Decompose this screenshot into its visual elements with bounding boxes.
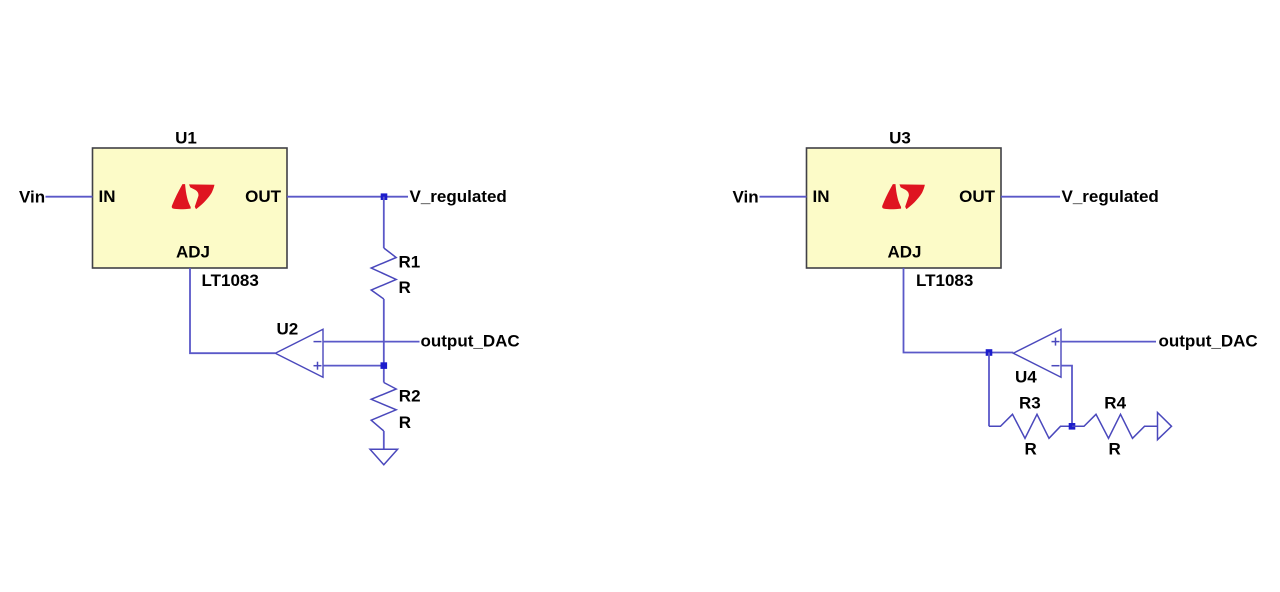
svg-text:IN: IN <box>99 187 116 206</box>
resistor R2 <box>371 383 396 432</box>
svg-text:OUT: OUT <box>245 187 282 206</box>
svg-text:U4: U4 <box>1015 368 1037 387</box>
svg-text:output_DAC: output_DAC <box>1159 332 1258 351</box>
svg-text:R4: R4 <box>1104 393 1126 412</box>
U3 LT logo <box>882 184 925 209</box>
wire R2 to ground <box>383 431 385 449</box>
wire Vin to U1 IN <box>46 196 93 198</box>
svg-text:output_DAC: output_DAC <box>421 332 520 351</box>
svg-text:R1: R1 <box>399 253 421 272</box>
op-amp U2 <box>275 329 323 377</box>
svg-text:V_regulated: V_regulated <box>410 187 507 206</box>
wire U2 + input to divider junction <box>323 365 384 367</box>
junction at feedback node <box>986 349 993 356</box>
svg-text:IN: IN <box>813 187 830 206</box>
svg-text:LT1083: LT1083 <box>202 271 259 290</box>
svg-text:Vin: Vin <box>733 188 759 207</box>
wire U2 - input to output_DAC <box>323 341 420 343</box>
U1 LT logo <box>172 184 215 209</box>
svg-text:R: R <box>399 413 411 432</box>
svg-text:R: R <box>1025 439 1037 458</box>
svg-text:U1: U1 <box>175 129 197 148</box>
wire U4 + input to output_DAC <box>1061 341 1156 343</box>
wire U3 OUT to V_regulated <box>1001 196 1060 198</box>
svg-text:OUT: OUT <box>959 187 996 206</box>
junction at OUT node <box>381 193 388 200</box>
wire U3 ADJ down and right to U4 <box>904 268 1014 353</box>
svg-text:V_regulated: V_regulated <box>1062 187 1159 206</box>
svg-text:LT1083: LT1083 <box>916 271 973 290</box>
wire U1 OUT to V_regulated <box>287 196 408 198</box>
resistor R3 <box>989 414 1072 438</box>
op-amp U4 <box>1013 329 1061 377</box>
wire junction down to R1 <box>383 197 385 248</box>
svg-text:R: R <box>399 278 411 297</box>
svg-text:U3: U3 <box>889 129 911 148</box>
svg-text:R3: R3 <box>1019 393 1041 412</box>
output port arrow <box>1158 413 1172 440</box>
regulator U1 body <box>93 148 288 268</box>
wire R1 bottom through + junction to R2 top <box>383 299 385 383</box>
junction at + input node <box>381 362 388 369</box>
wire feedback junction down to R3 <box>988 353 990 427</box>
resistor R1 <box>371 248 396 299</box>
svg-text:U2: U2 <box>277 320 299 339</box>
regulator U3 body <box>807 148 1002 268</box>
svg-text:R2: R2 <box>399 387 421 406</box>
wire U4 - input right and down to R3/R4 node <box>1061 366 1072 427</box>
junction between R3 and R4 <box>1069 423 1076 430</box>
resistor R4 <box>1072 414 1158 438</box>
svg-text:ADJ: ADJ <box>176 243 210 262</box>
svg-text:Vin: Vin <box>19 188 45 207</box>
wire U2 output left and up to U1 ADJ <box>190 268 275 353</box>
svg-text:R: R <box>1109 439 1121 458</box>
ground <box>370 449 398 465</box>
wire Vin to U3 IN <box>760 196 807 198</box>
svg-text:ADJ: ADJ <box>887 243 921 262</box>
